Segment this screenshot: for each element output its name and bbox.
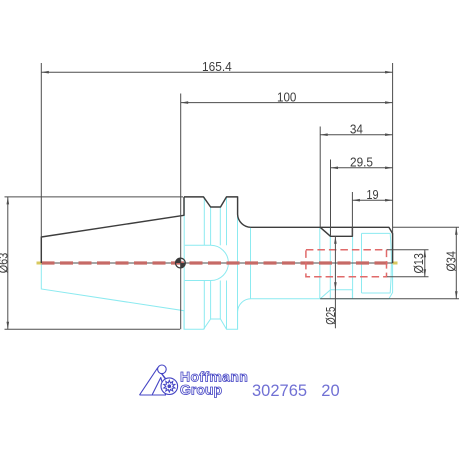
svg-text:Ø25: Ø25 xyxy=(323,307,338,325)
svg-text:29.5: 29.5 xyxy=(350,155,373,170)
cyan transition edge lines xyxy=(184,197,352,329)
dimension extension lines xyxy=(5,63,460,329)
dimension 34 xyxy=(320,133,392,136)
svg-text:165.4: 165.4 xyxy=(202,59,232,74)
svg-text:302765: 302765 xyxy=(252,382,307,400)
svg-text:Ø13: Ø13 xyxy=(411,253,426,273)
Hoffmann Group logo text xyxy=(180,369,248,398)
centerline thin black xyxy=(41,262,392,264)
dimension dia63 (vertical, left) xyxy=(7,197,10,329)
black upper outline: taper shank xyxy=(41,197,184,263)
svg-text:34: 34 xyxy=(350,122,363,137)
dimension 100 xyxy=(181,101,393,104)
centerline red dashes xyxy=(42,261,393,264)
black groove profile (relief neck) xyxy=(320,227,352,236)
svg-text:19: 19 xyxy=(366,187,378,202)
dimension dia13 (vertical, right) xyxy=(424,250,427,277)
gauge point dot xyxy=(176,258,186,268)
dimension 29.5 xyxy=(331,167,393,170)
svg-text:Ø34: Ø34 xyxy=(444,251,459,272)
svg-text:100: 100 xyxy=(277,89,296,104)
dimension dia34 (vertical, far right) xyxy=(455,227,458,298)
black upper outline: body cylinder and nose xyxy=(251,227,393,263)
black upper outline: flange with V-groove xyxy=(184,197,251,227)
dimension 165.4 xyxy=(41,71,392,74)
Hoffmann Group logo gear xyxy=(164,380,175,392)
red dashed highlight rectangle (clamping bore zone) xyxy=(306,250,387,277)
cyan lower-half mirror outline of tool holder xyxy=(41,263,392,329)
svg-text:Ø63: Ø63 xyxy=(0,253,11,274)
cyan clamping-nut internal thread lines xyxy=(362,233,392,293)
dimension dia25 (vertical, below neck) xyxy=(334,236,337,328)
svg-text:20: 20 xyxy=(321,382,339,400)
cyan groove mirror (lower) xyxy=(320,290,352,299)
svg-text:Group: Group xyxy=(180,382,222,398)
centerline yellow end dashes xyxy=(37,262,42,265)
Hoffmann Group logo figure xyxy=(140,365,178,395)
cyan internal bullet cavity xyxy=(185,245,229,280)
dimension 19 xyxy=(352,199,392,202)
